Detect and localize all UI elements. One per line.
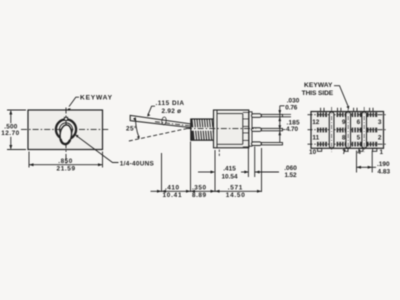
svg-text:THIS SIDE: THIS SIDE xyxy=(302,90,334,97)
svg-text:7: 7 xyxy=(342,149,346,156)
svg-text:KEYWAY: KEYWAY xyxy=(304,82,333,89)
svg-text:.115 DIA: .115 DIA xyxy=(156,100,185,107)
svg-text:10.41: 10.41 xyxy=(163,192,182,199)
svg-text:12.70: 12.70 xyxy=(1,130,19,137)
svg-text:.571: .571 xyxy=(228,185,243,192)
svg-text:1: 1 xyxy=(380,149,384,156)
svg-text:0.76: 0.76 xyxy=(285,104,297,111)
svg-text:.190: .190 xyxy=(377,161,390,168)
svg-text:3: 3 xyxy=(378,119,382,126)
svg-text:14.50: 14.50 xyxy=(226,192,245,199)
svg-text:.030: .030 xyxy=(287,97,300,104)
svg-text:21.59: 21.59 xyxy=(57,166,76,173)
svg-text:4.83: 4.83 xyxy=(378,168,391,175)
svg-text:1/4-40UNS: 1/4-40UNS xyxy=(120,160,155,167)
svg-text:8: 8 xyxy=(342,135,346,142)
svg-text:8.89: 8.89 xyxy=(192,192,206,199)
svg-text:.415: .415 xyxy=(223,166,236,173)
svg-text:9: 9 xyxy=(342,119,346,126)
svg-text:4: 4 xyxy=(357,149,361,156)
svg-text:6: 6 xyxy=(357,119,361,126)
svg-text:10: 10 xyxy=(309,149,317,156)
svg-text:.350: .350 xyxy=(192,185,206,192)
svg-text:KEYWAY: KEYWAY xyxy=(80,95,113,102)
svg-text:.410: .410 xyxy=(165,185,179,192)
svg-text:2: 2 xyxy=(378,135,382,142)
svg-text:2.92 ø: 2.92 ø xyxy=(162,108,182,115)
svg-text:.850: .850 xyxy=(58,158,72,165)
svg-text:1.52: 1.52 xyxy=(285,172,297,179)
svg-text:12: 12 xyxy=(312,119,320,126)
svg-text:4.70: 4.70 xyxy=(286,126,298,133)
svg-text:10.54: 10.54 xyxy=(222,174,238,181)
svg-text:11: 11 xyxy=(312,135,319,142)
svg-text:5: 5 xyxy=(357,135,361,142)
svg-text:25°: 25° xyxy=(126,125,137,133)
